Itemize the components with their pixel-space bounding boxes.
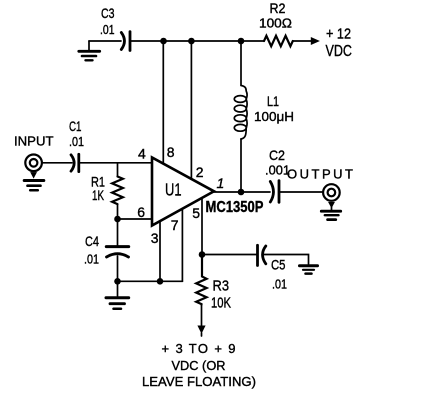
wire C2 to output jack xyxy=(280,191,323,193)
wire C5 row xyxy=(202,254,257,256)
svg-text:100Ω: 100Ω xyxy=(259,16,292,31)
svg-text:100μH: 100μH xyxy=(254,109,294,124)
ground G1 for C3 xyxy=(79,41,100,60)
wire C5 to ground xyxy=(265,255,309,265)
svg-text:7: 7 xyxy=(171,217,179,233)
ground G5 output jack xyxy=(321,202,340,220)
svg-text:5: 5 xyxy=(192,205,200,221)
wire pin 5 vertical xyxy=(201,199,203,255)
svg-text:R2: R2 xyxy=(270,0,286,16)
svg-text:+ 3 TO + 9: + 3 TO + 9 xyxy=(162,341,236,356)
wire C4 bottom lead xyxy=(117,256,119,281)
wire L1 bottom lead xyxy=(240,139,242,192)
wire input jack to C1 xyxy=(42,162,72,164)
node junction pin2/rail xyxy=(188,38,195,45)
connector J2 OUTPUT jack xyxy=(323,184,340,201)
svg-text:MC1350P: MC1350P xyxy=(206,199,264,216)
svg-text:VDC (OR: VDC (OR xyxy=(172,358,226,373)
wire arrow to +12 VDC xyxy=(293,37,320,45)
svg-text:U1: U1 xyxy=(165,180,182,200)
resistor R1 xyxy=(112,163,123,219)
svg-text:C4: C4 xyxy=(85,233,99,249)
svg-text:C3: C3 xyxy=(101,5,115,21)
wire pin 6 xyxy=(118,218,153,220)
svg-text:4: 4 xyxy=(138,146,146,162)
node junction pin3/ground bus xyxy=(157,278,164,285)
node junction pin8/rail xyxy=(160,38,167,45)
wire C4 top lead xyxy=(117,219,119,245)
ground G2 input jack xyxy=(24,172,44,190)
capacitor C3 xyxy=(121,32,130,51)
resistor R2 xyxy=(264,36,293,46)
svg-text:INPUT: INPUT xyxy=(14,134,54,149)
capacitor C1 xyxy=(71,154,79,171)
capacitor C4 xyxy=(106,247,128,257)
ground G3 for C4 xyxy=(106,281,129,308)
svg-text:.01: .01 xyxy=(272,277,287,292)
node junction pin5/C5/R3 xyxy=(199,251,206,258)
svg-text:.01: .01 xyxy=(84,252,99,267)
svg-text:2: 2 xyxy=(196,164,204,180)
wire arrow to +3..+9 supply xyxy=(197,305,205,337)
wire ground bus horizontal xyxy=(118,280,183,282)
wire top rail xyxy=(131,40,264,42)
svg-text:OUTPUT: OUTPUT xyxy=(287,167,353,182)
svg-text:VDC: VDC xyxy=(326,43,353,60)
node junction L1/output row xyxy=(238,189,245,196)
svg-text:L1: L1 xyxy=(267,93,279,109)
svg-text:C1: C1 xyxy=(69,118,82,134)
svg-text:LEAVE FLOATING): LEAVE FLOATING) xyxy=(142,374,256,389)
svg-text:1: 1 xyxy=(217,175,225,191)
ground G4 for C5 xyxy=(300,266,318,274)
svg-text:C5: C5 xyxy=(271,257,286,273)
node junction L1/rail xyxy=(238,38,245,45)
wire C1 to pin 4 xyxy=(79,162,152,164)
capacitor C5 xyxy=(258,245,266,265)
wire pin 3 vertical xyxy=(159,222,161,282)
svg-text:8: 8 xyxy=(167,144,175,160)
wire pin 8 vertical xyxy=(162,41,164,164)
svg-text:.01: .01 xyxy=(100,22,115,37)
svg-text:+ 12: + 12 xyxy=(326,27,351,43)
wire pin 7 vertical xyxy=(181,210,183,282)
inductor L1 xyxy=(234,86,247,140)
wire top rail left segment xyxy=(89,40,121,42)
wire L1 top lead xyxy=(240,41,242,85)
capacitor C2 xyxy=(270,181,279,203)
svg-text:C2: C2 xyxy=(269,147,285,163)
resistor R3 xyxy=(196,255,206,305)
wire pin 1 to C2 xyxy=(214,191,270,193)
node junction C4/ground bus xyxy=(114,278,121,285)
wire pin 2 vertical xyxy=(190,41,192,179)
svg-text:R3: R3 xyxy=(213,278,230,295)
svg-text:3: 3 xyxy=(151,230,159,246)
op-amp U1 triangle xyxy=(152,158,214,226)
svg-text:10K: 10K xyxy=(211,295,231,312)
connector J1 INPUT jack xyxy=(25,155,42,172)
svg-text:6: 6 xyxy=(137,204,145,220)
svg-text:.01: .01 xyxy=(69,134,84,149)
node junction R1/C4/pin6 xyxy=(114,216,121,223)
svg-text:1K: 1K xyxy=(92,187,104,203)
